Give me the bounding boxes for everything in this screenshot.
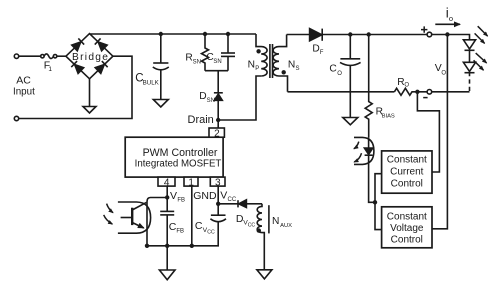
svg-text:V: V: [170, 190, 177, 202]
bridge diode top-right: [95, 38, 108, 51]
node CO top: [348, 32, 352, 36]
wire top rail (bridge + output to transformer primary): [90, 33, 257, 35]
wire drain to transformer primary bottom: [218, 76, 261, 120]
svg-text:P: P: [255, 66, 259, 72]
label NAUX: [272, 216, 292, 229]
label DF: [312, 44, 323, 57]
node drain: [216, 118, 220, 122]
svg-text:S: S: [296, 66, 300, 72]
svg-text:GND: GND: [193, 190, 217, 202]
svg-text:FB: FB: [177, 197, 185, 203]
node output minus junction: [415, 90, 419, 94]
svg-text:Input: Input: [13, 86, 35, 97]
optocoupler phototransistor symbol: [121, 202, 147, 228]
label NS: [288, 59, 300, 72]
diode DF: [310, 29, 323, 41]
label VO: [435, 62, 447, 76]
svg-text:Current: Current: [390, 167, 424, 178]
dot Np phase: [256, 49, 260, 53]
wire bottom rail: [147, 222, 218, 246]
svg-text:D: D: [199, 91, 206, 102]
opto LED light arrows out: [354, 142, 362, 162]
svg-text:AC: AC: [16, 75, 31, 87]
svg-text:Constant: Constant: [387, 155, 427, 166]
box constant voltage control: [382, 207, 432, 248]
label plus: [421, 26, 427, 32]
svg-text:o: o: [449, 14, 453, 23]
LED D1: [463, 40, 475, 63]
svg-text:C: C: [329, 64, 336, 75]
capacitor CVCC: [210, 215, 226, 222]
wire AC line top: terminal to fuse: [19, 55, 41, 57]
capacitor CSN: [221, 34, 235, 71]
pin 2: [209, 128, 224, 139]
bridge diode bottom-right: [95, 61, 108, 73]
label DVCC: [236, 213, 256, 229]
svg-text:N: N: [288, 59, 295, 70]
optocoupler LED diode: [364, 137, 375, 202]
terminal AC bottom: [14, 116, 18, 120]
svg-text:BULK: BULK: [143, 79, 160, 86]
label RSN: [185, 53, 201, 66]
winding NAUX: [257, 204, 264, 270]
label io: [446, 5, 453, 23]
IC U1 PWM controller: [125, 137, 223, 177]
node Vo sense tap: [445, 32, 449, 36]
bridge rectifier diamond: [66, 34, 113, 79]
label RO: [397, 77, 409, 89]
wire secondary top rail: [287, 35, 470, 41]
ground (bridge): [83, 79, 96, 113]
svg-text:F: F: [320, 50, 324, 56]
node RSN top: [203, 32, 207, 36]
arrow io: [435, 23, 460, 25]
svg-text:Control: Control: [391, 235, 423, 246]
label CSN: [206, 52, 221, 65]
resistor RSN: [202, 34, 209, 71]
svg-text:2: 2: [214, 128, 220, 139]
label DSN: [199, 91, 215, 104]
node VCC branch: [216, 202, 220, 206]
svg-text:Control: Control: [391, 178, 423, 189]
wire fuse to bridge left node: [57, 55, 66, 57]
svg-text:O: O: [441, 70, 446, 76]
wire control left bus (line B): [375, 174, 382, 230]
capacitor CBULK: [153, 34, 169, 100]
svg-text:V: V: [220, 190, 227, 202]
node rail-GND: [190, 244, 194, 248]
capacitor CFB: [160, 211, 174, 245]
wire VCC to DVCC: [218, 203, 238, 205]
label VCC pin: [220, 190, 237, 203]
label F1: [44, 59, 53, 73]
svg-text:N: N: [272, 216, 279, 227]
resistor RBIAS: [365, 35, 372, 138]
dot NAUX phase: [257, 228, 261, 232]
LED light arrows: [474, 26, 488, 70]
optocoupler phototransistor package: [118, 202, 151, 233]
label VFB: [170, 190, 185, 204]
svg-text:Bridge: Bridge: [72, 52, 109, 63]
label NP: [248, 59, 260, 72]
wire dashed LED return: [469, 74, 471, 92]
wire VCC pin down: [217, 186, 219, 215]
node rail-opto: [145, 244, 149, 248]
node rail-CFB: [165, 244, 169, 248]
terminal AC top: [14, 54, 18, 58]
fuse F1: [41, 54, 57, 59]
svg-text:CC: CC: [248, 223, 256, 229]
svg-text:BIAS: BIAS: [382, 114, 395, 120]
optocoupler phototransistor collector wire to VFB: [147, 198, 167, 246]
wire snubber bottom join: [205, 71, 228, 93]
svg-text:PWM Controller: PWM Controller: [143, 147, 218, 159]
transformer primary Np winding: [256, 34, 267, 76]
svg-text:CC: CC: [207, 230, 215, 236]
svg-text:N: N: [248, 59, 255, 70]
svg-text:O: O: [404, 83, 409, 89]
transformer core: [270, 44, 273, 78]
pin 4: [158, 177, 175, 188]
svg-text:SN: SN: [193, 59, 201, 65]
wire VFB pin down: [166, 186, 168, 211]
label minus: [423, 97, 427, 99]
svg-text:CC: CC: [228, 197, 237, 203]
svg-text:Voltage: Voltage: [390, 223, 424, 234]
wire GND pin down: [191, 186, 193, 246]
terminal plus: [427, 32, 432, 37]
svg-text:Drain: Drain: [188, 114, 214, 126]
label CBULK: [135, 73, 159, 87]
node RBIAS top: [367, 32, 371, 36]
pin 1: [184, 177, 198, 188]
ground (NAUX): [257, 270, 272, 279]
wire Vo sense line to CV control: [432, 35, 447, 229]
optocoupler LED package: [354, 137, 374, 164]
wire drain to pin 2: [217, 120, 219, 128]
bridge diode top-left: [72, 38, 85, 50]
ground (CO): [343, 118, 358, 125]
terminal minus: [427, 90, 432, 95]
dot Ns phase: [282, 70, 286, 74]
LED D2: [463, 62, 475, 72]
resistor RO: [394, 88, 417, 95]
wire minus jog to CC control (line C): [417, 92, 439, 172]
svg-text:O: O: [337, 71, 342, 77]
transformer secondary Ns winding: [273, 35, 287, 92]
svg-text:1: 1: [48, 66, 52, 73]
ground (main): [159, 246, 175, 280]
node CBULK top: [159, 32, 163, 36]
node feedback junction: [373, 200, 377, 204]
diode DVCC: [238, 200, 262, 208]
box constant current control: [382, 151, 432, 193]
opto light arrows in: [104, 204, 113, 225]
label RBIAS: [376, 107, 395, 120]
svg-text:AUX: AUX: [280, 223, 292, 229]
node VFB: [165, 195, 169, 199]
svg-text:Constant: Constant: [387, 211, 427, 222]
label AC Input: [13, 75, 35, 98]
bridge diode bottom-left: [71, 61, 84, 74]
ground (CBULK): [153, 100, 168, 108]
capacitor CO: [340, 35, 361, 118]
label CFB: [169, 221, 184, 234]
svg-text:SN: SN: [213, 59, 221, 65]
wire output return rail (Ns bottom to minus terminal to LED return): [288, 91, 395, 93]
label CO: [329, 64, 342, 78]
wire AC line bottom + bridge right return: [19, 56, 132, 118]
wire minus junction to LED return: [417, 91, 469, 93]
svg-text:Integrated MOSFET: Integrated MOSFET: [135, 158, 222, 169]
diode DSN: [214, 93, 223, 120]
svg-text:SN: SN: [207, 98, 215, 104]
label CVCC: [195, 220, 215, 236]
node CSN top: [226, 32, 230, 36]
svg-text:FB: FB: [176, 229, 184, 235]
svg-text:D: D: [312, 44, 319, 55]
pin 3: [210, 177, 225, 188]
